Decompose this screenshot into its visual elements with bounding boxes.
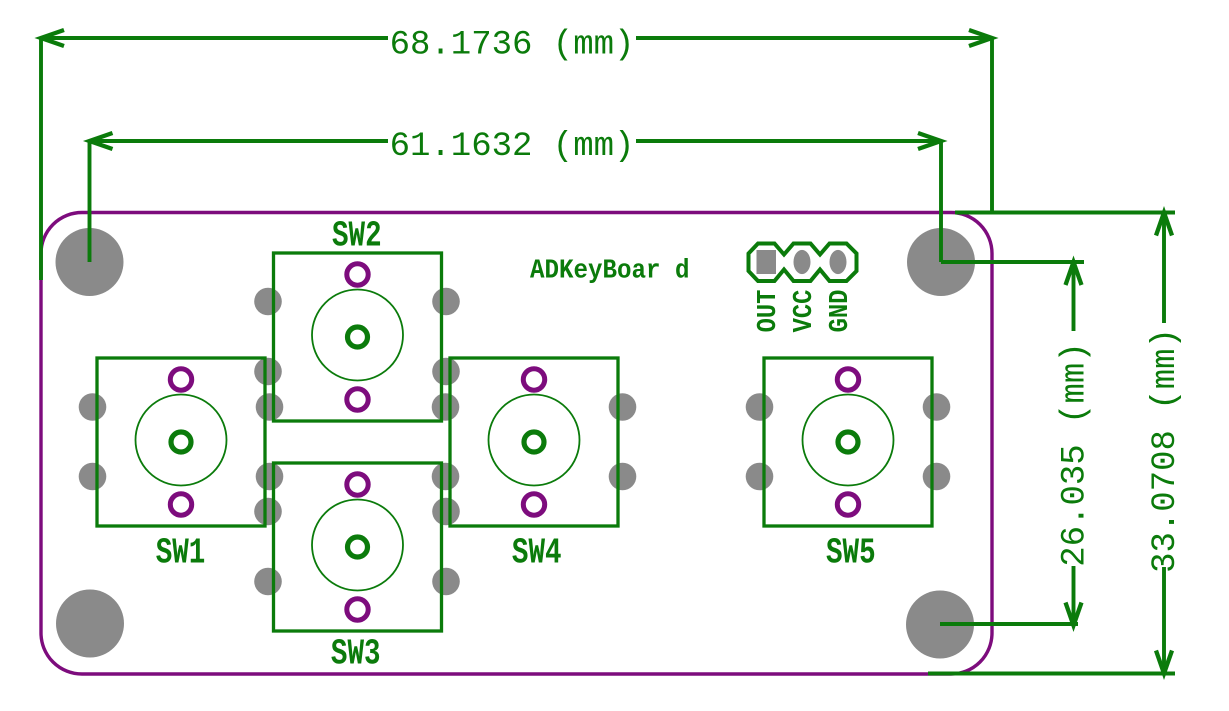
dimension 33.0708 mm lines: [1162, 213, 1166, 674]
connector P1 pad 2: [794, 250, 811, 274]
dimension 68.1736 mm arrows: [41, 30, 992, 46]
dimension 26.035 mm lines: [1072, 262, 1076, 626]
dimension 61.1632 mm lines: [90, 139, 942, 143]
svg-text:SW3: SW3: [331, 633, 381, 675]
switch SW3 pin holes: [347, 474, 368, 620]
svg-text:33.0708 (mm): 33.0708 (mm): [1147, 328, 1185, 573]
switch SW1 pin holes: [170, 369, 191, 515]
switch SW3 pads: [254, 498, 460, 596]
switch SW3 body: [274, 463, 442, 631]
mounting hole bottom-left: [56, 590, 124, 658]
svg-text:ADKeyBoar d: ADKeyBoar d: [530, 255, 689, 286]
dimension 33.0708 mm extension lines: [928, 213, 1175, 674]
dimension 33.0708 mm text: [1147, 328, 1185, 573]
switch SW2 body: [274, 253, 442, 421]
dimension 26.035 mm arrows: [1066, 262, 1082, 626]
svg-text:GND: GND: [825, 290, 856, 333]
switch SW1 body: [97, 358, 265, 526]
connector P1 pad 3: [830, 250, 847, 274]
switch SW1 pads: [79, 393, 284, 490]
mounting hole bottom-right: [906, 591, 974, 659]
connector P1 outline: [749, 244, 857, 282]
dimension 33.0708 mm arrows: [1156, 213, 1172, 674]
switch SW2 pads: [254, 288, 460, 386]
svg-text:OUT: OUT: [753, 290, 784, 333]
pin label VCC: [789, 290, 820, 333]
switch SW4 pin holes: [523, 369, 544, 515]
svg-text:SW2: SW2: [332, 215, 382, 257]
switch SW5 pads: [746, 393, 951, 490]
svg-text:26.035 (mm): 26.035 (mm): [1056, 342, 1094, 566]
switch SW5 pin holes: [837, 369, 858, 515]
board outline: [41, 213, 992, 675]
dimension 68.1736 mm lines: [41, 36, 992, 40]
svg-text:VCC: VCC: [789, 290, 820, 333]
svg-text:68.1736 (mm): 68.1736 (mm): [390, 27, 635, 65]
mounting hole top-left: [56, 228, 124, 296]
switch SW2 pin holes: [347, 264, 368, 410]
dimension 26.035 mm extension lines: [940, 262, 1084, 624]
pin label OUT: [753, 290, 784, 333]
mounting hole top-right: [907, 228, 975, 296]
pin label GND: [825, 290, 856, 333]
switch SW5 body: [764, 358, 932, 526]
dimension 61.1632 mm arrows: [90, 133, 942, 149]
switch SW4 body: [450, 358, 618, 526]
switch SW4 pads: [432, 393, 637, 490]
dimension 26.035 mm text: [1056, 342, 1094, 566]
svg-text:SW5: SW5: [826, 532, 876, 574]
dimension 68.1736 mm extension lines: [41, 38, 992, 280]
svg-text:SW1: SW1: [156, 532, 206, 574]
svg-text:61.1632 (mm): 61.1632 (mm): [390, 128, 635, 166]
connector P1 pad 1 square: [757, 250, 777, 274]
dimension 61.1632 mm extension lines: [90, 141, 942, 262]
svg-text:SW4: SW4: [512, 532, 562, 574]
